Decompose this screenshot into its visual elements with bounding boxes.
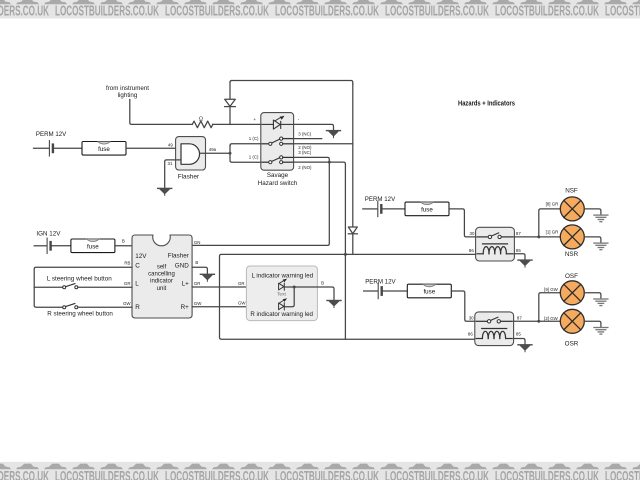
diode D1 [229, 82, 231, 99]
wire from instrument lighting down and right to resistor [130, 100, 193, 125]
svg-text:GW: GW [238, 301, 246, 306]
svg-text:49: 49 [168, 142, 173, 147]
flasher U2 [176, 137, 206, 170]
resistor R1 [192, 121, 212, 128]
svg-text:30: 30 [470, 231, 475, 236]
battery B4 [377, 283, 379, 298]
svg-text:PERM 12V: PERM 12V [36, 131, 67, 138]
svg-text:GND: GND [175, 262, 189, 269]
svg-text:RB: RB [124, 261, 130, 266]
svg-text:L: L [135, 281, 139, 288]
junction K1 87 [537, 235, 540, 238]
svg-text:PERM 12V: PERM 12V [365, 196, 396, 203]
wire resistor to hazard switch + [213, 123, 261, 125]
svg-text:fuse: fuse [423, 289, 435, 296]
svg-text:2 (NO): 2 (NO) [298, 165, 312, 170]
fuse F4 [407, 284, 451, 298]
svg-text:30: 30 [469, 315, 474, 320]
svg-text:[2] GW: [2] GW [544, 316, 559, 321]
diode D2 [352, 84, 354, 227]
svg-text:Flasher: Flasher [178, 174, 200, 181]
svg-text:fuse: fuse [87, 243, 99, 250]
svg-text:B: B [195, 260, 198, 265]
svg-text:B: B [321, 281, 324, 286]
wire relay K1 85 to ground [514, 254, 525, 260]
svg-text:85: 85 [516, 248, 521, 253]
svg-text:87: 87 [517, 315, 522, 320]
svg-text:86: 86 [468, 332, 473, 337]
wire hazard - to ground [294, 124, 334, 130]
watermark top band [0, 0, 640, 20]
svg-text:Hazard switch: Hazard switch [258, 180, 298, 187]
svg-text:R indicator warning led: R indicator warning led [250, 311, 313, 318]
wire OSR to earth [584, 321, 601, 327]
svg-text:87: 87 [516, 231, 521, 236]
svg-text:Text: Text [277, 291, 286, 297]
wire R led cathode up [284, 287, 294, 307]
svg-text:self: self [157, 264, 167, 270]
svg-text:NSF: NSF [565, 187, 578, 194]
earth (OSR) [594, 328, 608, 335]
ground (K2 85) [518, 345, 532, 352]
svg-text:12V: 12V [135, 253, 147, 260]
wire into battery B4 [364, 290, 378, 292]
wire battery B4 to fuse F4 [382, 290, 408, 292]
wire unit L+ to L warning led [192, 286, 279, 288]
wire hazard feed rail loop [220, 254, 476, 339]
wire into battery B1 [34, 147, 49, 149]
wire relay K1 87 to NSR lamp [514, 236, 560, 238]
switch L steering wheel button [63, 284, 78, 289]
svg-text:GR: GR [238, 281, 245, 286]
switch R steering wheel button [63, 304, 78, 309]
svg-text:3 (NC): 3 (NC) [298, 132, 311, 137]
svg-text:Flasher: Flasher [168, 252, 189, 259]
svg-text:[1] GR: [1] GR [546, 230, 559, 235]
wire hazard sw2 NC to flasher pin of unit [192, 157, 329, 245]
svg-text:49a: 49a [209, 147, 217, 152]
svg-text:[8] GR: [8] GR [546, 202, 559, 207]
svg-text:fuse: fuse [98, 146, 110, 153]
wire up to NSF lamp [539, 209, 561, 237]
junction feed rail [344, 253, 347, 256]
svg-text:GW: GW [194, 301, 202, 306]
hazard switch pole 1 [262, 137, 292, 145]
battery B2 [46, 238, 48, 253]
lamp NSR [560, 225, 584, 249]
svg-text:C: C [135, 262, 140, 269]
ground (hazard switch lamp) [327, 131, 341, 138]
R indicator warning led D4 [279, 298, 288, 310]
relay K1 [476, 227, 515, 261]
wire flasher pin 31 to ground [165, 160, 181, 188]
fuse F3 [405, 202, 449, 216]
wire into battery B2 [34, 245, 46, 247]
svg-text:GR: GR [124, 281, 131, 286]
svg-text:86: 86 [469, 248, 474, 253]
svg-text:OSR: OSR [565, 340, 579, 347]
svg-text:+: + [253, 117, 256, 122]
svg-text:1 (C): 1 (C) [249, 155, 259, 160]
wire unit R+ to R warning led [192, 306, 279, 308]
svg-text:GR: GR [194, 281, 201, 286]
svg-text:L+: L+ [182, 281, 190, 288]
ground (warning leds) [327, 301, 341, 308]
L indicator warning led D3 [279, 279, 288, 291]
svg-text:IGN 12V: IGN 12V [36, 230, 61, 237]
wire battery B3 to fuse F3 [381, 208, 405, 210]
wire up to OSF lamp [539, 293, 561, 322]
svg-text:85: 85 [516, 332, 521, 337]
earth (NSR) [594, 243, 608, 250]
junction K2 87 [537, 320, 540, 323]
relay K2 [475, 312, 514, 346]
junction 49a [229, 152, 232, 155]
wire flasher 49a to hazard switch commons [200, 152, 230, 154]
svg-text:GN: GN [194, 240, 201, 245]
wire L led cathode to ground [284, 287, 334, 300]
lamp OSF [560, 281, 584, 305]
battery B1 [48, 141, 50, 156]
wire unit GND to ground [192, 267, 207, 274]
wire fuse F2 to unit 12V pin [115, 245, 132, 247]
wire C common run [34, 267, 132, 307]
hazard switch pole 2 [262, 156, 292, 164]
hazard lamp LED symbol [262, 116, 292, 129]
warning led box [246, 266, 317, 321]
svg-text:3 (NC): 3 (NC) [298, 150, 311, 155]
wire into battery B3 [363, 208, 378, 210]
svg-text:Ω: Ω [199, 117, 203, 123]
ground (flasher) [158, 188, 172, 195]
svg-text:from instrument: from instrument [106, 85, 149, 92]
ground (unit GND) [200, 274, 214, 281]
wire R button to unit R [78, 306, 132, 308]
svg-text:lighting: lighting [118, 92, 138, 99]
svg-text:Hazards + Indicators: Hazards + Indicators [458, 100, 515, 107]
wire fuse F4 to relay K2 pin 30 [451, 291, 475, 321]
watermark bottom band [0, 462, 640, 480]
svg-text:R steering wheel button: R steering wheel button [47, 311, 113, 318]
svg-text:[9] GW: [9] GW [544, 287, 559, 292]
junction sw2 NC-NO [328, 161, 331, 164]
svg-text:R+: R+ [181, 304, 190, 311]
wire battery B2 to fuse F2 [51, 245, 71, 247]
fuse F2 [71, 239, 115, 253]
wire hazard sw1 NO to top rail [294, 143, 353, 145]
svg-text:cancelling: cancelling [148, 272, 175, 278]
svg-text:B: B [122, 239, 125, 244]
svg-text:31: 31 [168, 161, 173, 166]
ground (K1 85) [518, 260, 532, 267]
svg-text:fuse: fuse [421, 207, 433, 214]
junction led cathodes [293, 286, 296, 289]
svg-text:L indicator warning led: L indicator warning led [252, 272, 314, 279]
earth (NSF) [594, 215, 608, 222]
svg-text:NSR: NSR [565, 251, 579, 258]
hazard switch U3 box [261, 113, 294, 171]
wire fuse F3 to relay K1 pin 30 [449, 209, 476, 237]
wire NSR to earth [584, 237, 601, 243]
svg-text:GW: GW [123, 301, 131, 306]
svg-text:Savage: Savage [267, 172, 289, 179]
wire OSF to earth [584, 293, 601, 299]
fuse F1 [82, 142, 126, 156]
wire NSF to earth [584, 209, 601, 215]
svg-text:PERM 12V: PERM 12V [365, 279, 396, 286]
self cancelling indicator unit U1 [132, 235, 192, 318]
wire hazard sw2 NO down to feed rail [294, 162, 346, 339]
svg-text:indicator: indicator [150, 279, 173, 285]
wire to L button [34, 286, 62, 288]
wire hazard sw1 NC stub [294, 138, 322, 140]
svg-text:OSF: OSF [565, 273, 578, 280]
wire fuse F1 to flasher pin 49 [126, 147, 181, 149]
svg-text:R: R [135, 304, 140, 311]
battery B3 [377, 201, 379, 216]
lamp NSF [560, 197, 584, 221]
wire relay K2 85 to ground [514, 339, 525, 345]
wire battery B1 to fuse F1 [53, 147, 82, 149]
lamp OSR [560, 309, 584, 333]
wire top rail [232, 81, 353, 85]
svg-text:L steering wheel button: L steering wheel button [47, 276, 112, 283]
wire relay K2 87 to OSR lamp [514, 320, 561, 322]
wire L button to unit L [78, 286, 132, 288]
svg-text:1 (C): 1 (C) [249, 136, 259, 141]
svg-text:unit: unit [157, 286, 167, 292]
earth (OSF) [594, 299, 608, 306]
